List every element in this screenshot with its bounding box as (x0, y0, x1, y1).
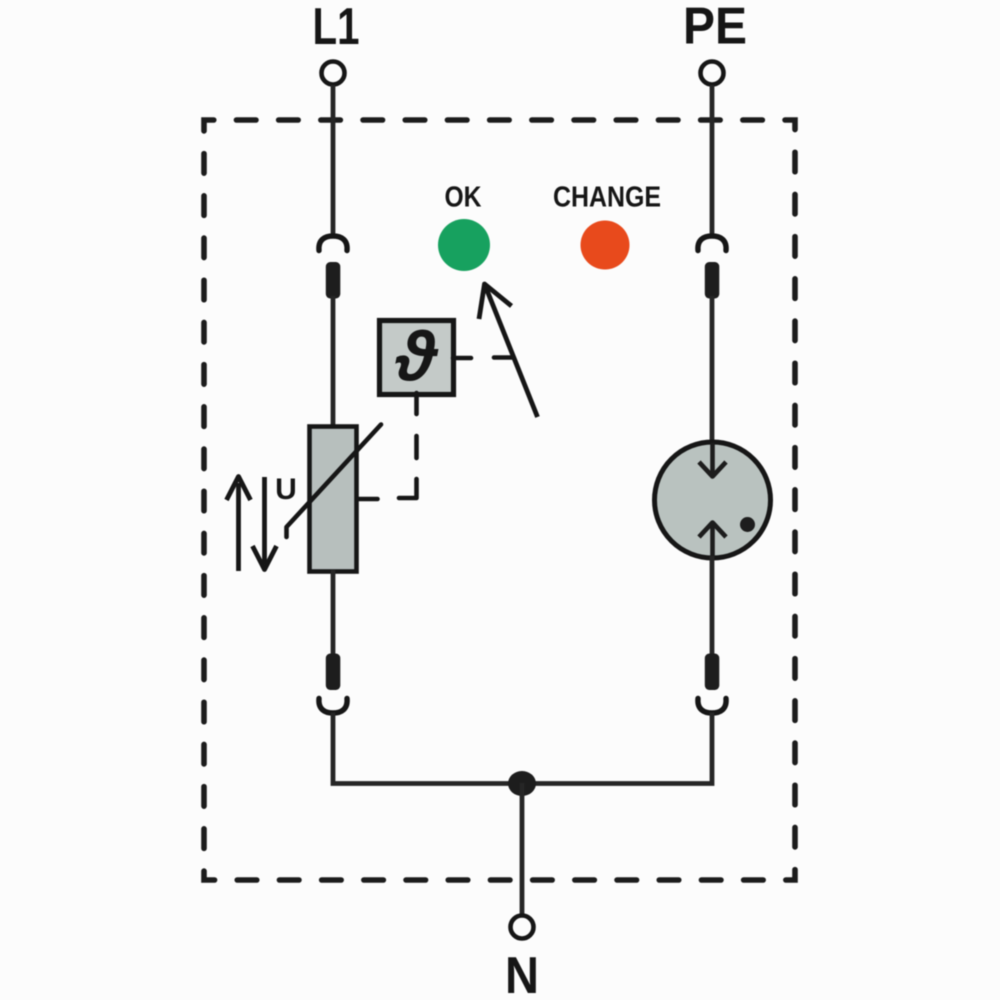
lower disconnector bar L1 branch (326, 654, 341, 691)
disconnector bar L1 branch (326, 262, 341, 299)
wire L1 branch to junction (333, 713, 522, 784)
gas discharge tube electrode bottom arrow (710, 525, 715, 558)
lower disconnector contact arc PE branch (698, 699, 726, 714)
svg-text:L1: L1 (313, 0, 360, 56)
svg-text:U: U (275, 473, 297, 506)
wire junction to N terminal (520, 783, 525, 915)
gas discharge tube F1 body (655, 442, 771, 558)
disconnector bar PE branch (705, 262, 720, 299)
wire varistor to lower disconnector (331, 570, 336, 656)
svg-text:OK: OK (445, 182, 482, 214)
varistor RV1 body (310, 427, 357, 572)
thermal disconnect box (380, 321, 454, 395)
lower disconnector bar PE branch (705, 654, 720, 691)
disconnector contact arc PE branch (698, 236, 726, 251)
wire gas discharge tube to lower disconnector (710, 556, 715, 656)
CHANGE LED red (581, 221, 630, 270)
svg-text:N: N (505, 947, 539, 1000)
disconnector contact arc L1 branch (319, 236, 347, 251)
terminal N (511, 916, 534, 939)
terminal PE (701, 62, 724, 85)
wire L1 terminal to disconnector (331, 85, 336, 237)
svg-text:ϑ: ϑ (395, 318, 439, 396)
wire disconnector to gas discharge tube (710, 296, 715, 445)
gas discharge tube electrode top arrow (710, 443, 715, 474)
wire PE branch to junction (522, 713, 712, 784)
voltage arrow down (262, 477, 267, 564)
varistor RV1 diagonal (287, 425, 382, 538)
OK LED green (438, 219, 490, 271)
terminal L1 (322, 62, 345, 85)
svg-text:CHANGE: CHANGE (553, 182, 661, 214)
enclosure dashed border (204, 120, 795, 880)
gas discharge tube gas-filled dot (740, 517, 755, 532)
status indicator arrow (485, 284, 538, 417)
wire PE terminal to disconnector (710, 85, 715, 237)
dashed link theta box to varistor (358, 393, 417, 499)
wire disconnector to varistor (331, 296, 336, 428)
dashed link theta box to indicator arrow (453, 355, 513, 360)
svg-text:PE: PE (683, 0, 747, 56)
junction node (508, 771, 536, 796)
voltage arrow up (236, 483, 241, 571)
lower disconnector contact arc L1 branch (319, 699, 347, 714)
